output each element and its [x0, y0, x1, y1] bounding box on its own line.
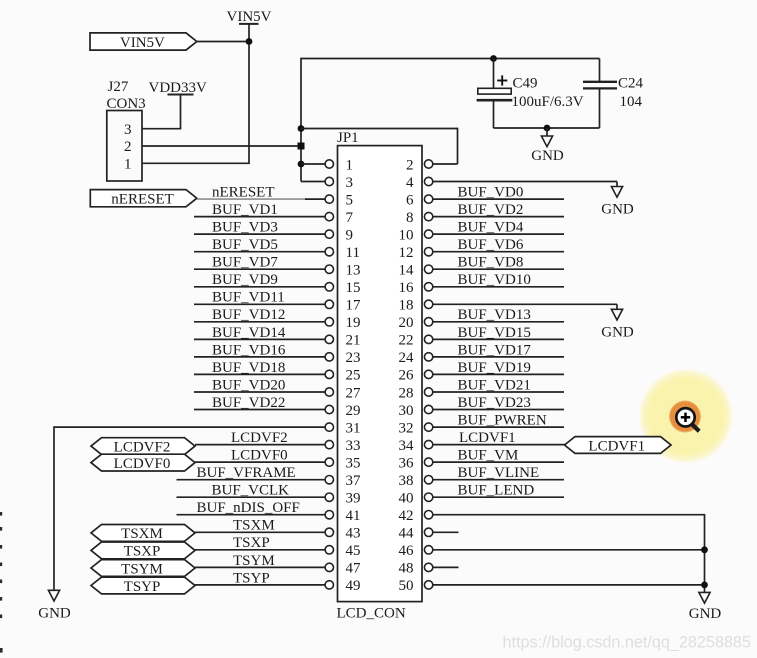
- svg-text:100uF/6.3V: 100uF/6.3V: [512, 94, 584, 110]
- svg-text:BUF_LEND: BUF_LEND: [458, 483, 535, 499]
- svg-text:9: 9: [346, 227, 354, 243]
- JP1 pin 21: [325, 333, 360, 349]
- svg-text:23: 23: [346, 350, 361, 366]
- wire nERESET to pin5: [305, 198, 325, 200]
- JP1 pin 23: [325, 350, 360, 366]
- JP1 pin 13: [325, 263, 360, 279]
- wire JP1 pin1 to bus: [301, 163, 325, 165]
- wire pin2 route horizontal: [301, 128, 458, 130]
- port flag LCDVF0: [91, 454, 195, 472]
- JP1 pin 22: [399, 333, 433, 349]
- JP1 pin 34: [399, 438, 433, 454]
- svg-text:4: 4: [406, 175, 414, 191]
- wire BUF_VD19 from pin 26: [433, 373, 564, 375]
- clipped text fragment 6: [0, 597, 2, 601]
- JP1 pin 41: [325, 508, 360, 524]
- JP1 pin 16: [399, 280, 433, 296]
- svg-text:BUF_VD18: BUF_VD18: [212, 360, 285, 376]
- wire BUF_VD13 from pin 20: [433, 321, 564, 323]
- JP1 pin 43: [325, 526, 360, 542]
- wire VIN5V vertical: [248, 24, 250, 163]
- svg-text:nERESET: nERESET: [111, 192, 174, 208]
- svg-text:LCDVF1: LCDVF1: [459, 430, 516, 446]
- svg-text:BUF_PWREN: BUF_PWREN: [458, 413, 547, 429]
- svg-text:TSYP: TSYP: [124, 579, 161, 595]
- wire pin2 route vertical: [457, 128, 459, 164]
- clipped text fragment 4: [0, 563, 2, 567]
- clipped text fragment 3: [0, 545, 2, 549]
- magnifier cursor icon: [676, 408, 699, 431]
- JP1 pin 29: [325, 403, 360, 419]
- wire J27 pin1 to VIN5V: [142, 162, 250, 164]
- ground pin4: [601, 182, 634, 218]
- JP1 pin 27: [325, 385, 361, 401]
- JP1 pin 6: [406, 192, 433, 208]
- svg-text:6: 6: [406, 192, 414, 208]
- wire BUF_VFRAME to pin 37: [177, 479, 326, 481]
- svg-text:BUF_VD5: BUF_VD5: [212, 237, 278, 253]
- svg-text:22: 22: [399, 333, 414, 349]
- wire pin50 to GND rail: [433, 584, 705, 586]
- wire TSXP to pin 45: [195, 549, 325, 551]
- JP1 pin 4: [406, 175, 433, 191]
- JP1 pin 2: [406, 157, 433, 173]
- svg-text:TSYP: TSYP: [233, 570, 270, 586]
- svg-text:50: 50: [399, 578, 414, 594]
- svg-text:LCD_CON: LCD_CON: [337, 606, 406, 622]
- svg-text:BUF_VD12: BUF_VD12: [212, 307, 285, 323]
- svg-text:BUF_VD10: BUF_VD10: [458, 272, 531, 288]
- capacitor C24: [583, 59, 617, 129]
- svg-text:5: 5: [346, 192, 354, 208]
- wire BUF_PWREN from pin 32: [433, 426, 564, 428]
- JP1 pin 40: [399, 491, 433, 507]
- svg-text:10: 10: [399, 227, 414, 243]
- JP1 pin 42: [399, 508, 433, 524]
- svg-text:18: 18: [399, 298, 414, 314]
- JP1 pin 7: [325, 210, 353, 226]
- svg-text:47: 47: [346, 561, 362, 577]
- svg-text:BUF_VLINE: BUF_VLINE: [458, 465, 540, 481]
- svg-text:BUF_VD9: BUF_VD9: [212, 272, 278, 288]
- JP1 pin 33: [325, 438, 360, 454]
- svg-text:LCDVF2: LCDVF2: [231, 430, 288, 446]
- svg-text:LCDVF0: LCDVF0: [231, 448, 288, 464]
- svg-text:8: 8: [406, 210, 414, 226]
- svg-text:17: 17: [346, 298, 362, 314]
- magnifier highlight orange ring: [669, 400, 701, 432]
- wire VDD33V stem: [180, 95, 182, 129]
- svg-text:C49: C49: [513, 76, 538, 92]
- port flag LCDVF1: [565, 437, 672, 455]
- svg-text:BUF_VM: BUF_VM: [458, 448, 519, 464]
- port flag TSXM: [91, 525, 195, 543]
- ground left: [38, 590, 71, 621]
- JP1 pin 24: [399, 350, 433, 366]
- power symbol VDD33V: [149, 80, 207, 96]
- wire nERESET gray: [197, 198, 305, 200]
- svg-text:40: 40: [399, 491, 414, 507]
- svg-text:BUF_VD22: BUF_VD22: [212, 395, 285, 411]
- svg-text:BUF_VCLK: BUF_VCLK: [212, 483, 290, 499]
- wire JP1 pin4 to GND: [433, 181, 617, 183]
- wire LCDVF2 to pin33: [195, 444, 325, 446]
- clipped text fragment 1: [0, 512, 2, 516]
- svg-text:37: 37: [346, 473, 362, 489]
- svg-text:31: 31: [346, 420, 361, 436]
- svg-text:TSYM: TSYM: [233, 553, 275, 569]
- JP1 pin 5: [325, 192, 353, 208]
- svg-text:35: 35: [346, 455, 361, 471]
- svg-text:BUF_VD19: BUF_VD19: [458, 360, 531, 376]
- JP1 pin 46: [399, 543, 433, 559]
- wire BUF_VD20 to pin 27: [194, 391, 325, 393]
- svg-text:GND: GND: [531, 148, 564, 164]
- wire bus VIN5V vertical: [300, 58, 302, 182]
- svg-text:BUF_VD2: BUF_VD2: [458, 202, 524, 218]
- JP1 pin 1: [325, 157, 353, 173]
- power flag VIN5V: [90, 33, 197, 51]
- wire right GND vertical: [704, 514, 706, 593]
- svg-text:TSYM: TSYM: [121, 561, 163, 577]
- wire BUF_VD11 to pin 17: [194, 303, 325, 305]
- wire VIN5V rail top: [301, 58, 600, 60]
- port flag TSXP: [91, 542, 195, 560]
- clipped text fragment 8: [0, 648, 3, 653]
- wire TSYP to pin 49: [195, 584, 325, 586]
- wire BUF_VCLK to pin 39: [177, 496, 326, 498]
- JP1 pin 17: [325, 298, 361, 314]
- wire BUF_VD8 from pin 14: [433, 268, 564, 270]
- svg-text:20: 20: [399, 315, 414, 331]
- power symbol VIN5V: [227, 9, 272, 25]
- connector JP1 body: [338, 146, 423, 602]
- wire BUF_VD3 to pin 9: [194, 233, 325, 235]
- svg-text:38: 38: [399, 473, 414, 489]
- svg-text:26: 26: [399, 368, 415, 384]
- wire VIN5V flag to junction: [197, 41, 249, 43]
- ground pin18: [601, 304, 634, 340]
- svg-text:12: 12: [399, 245, 414, 261]
- junction VIN5V: [246, 38, 253, 45]
- JP1 pin 20: [399, 315, 433, 331]
- wire JP1 pin2 stub: [433, 163, 458, 165]
- svg-text:BUF_VD21: BUF_VD21: [458, 377, 531, 393]
- JP1 pin 36: [399, 455, 433, 471]
- wire BUF_nDIS_OFF to pin 41: [177, 514, 326, 516]
- wire BUF_VD9 to pin 15: [194, 286, 325, 288]
- svg-text:BUF_VD15: BUF_VD15: [458, 325, 531, 341]
- svg-text:7: 7: [346, 210, 354, 226]
- svg-text:43: 43: [346, 526, 361, 542]
- svg-text:14: 14: [399, 263, 415, 279]
- wire JP1 pin18 to GND: [433, 303, 617, 305]
- svg-text:24: 24: [399, 350, 415, 366]
- junction bus JP1 pin1: [298, 161, 305, 168]
- wire pin48 stub: [433, 566, 459, 568]
- svg-text:BUF_VFRAME: BUF_VFRAME: [197, 465, 296, 481]
- svg-text:LCDVF0: LCDVF0: [114, 456, 171, 472]
- wire BUF_VD7 to pin 13: [194, 268, 325, 270]
- svg-text:BUF_VD4: BUF_VD4: [458, 220, 524, 236]
- wire BUF_VM from pin 36: [433, 461, 564, 463]
- JP1 pin 49: [325, 578, 360, 594]
- JP1 pin 47: [325, 561, 361, 577]
- wire BUF_VD10 from pin 16: [433, 286, 564, 288]
- JP1 pin 31: [325, 420, 360, 436]
- svg-text:44: 44: [399, 526, 415, 542]
- svg-text:3: 3: [124, 122, 132, 138]
- JP1 pin 11: [325, 245, 360, 261]
- svg-text:16: 16: [399, 280, 415, 296]
- svg-text:VIN5V: VIN5V: [227, 9, 272, 25]
- svg-text:BUF_VD3: BUF_VD3: [212, 220, 278, 236]
- wire LCDVF1 from pin 34: [433, 444, 566, 446]
- svg-text:28: 28: [399, 385, 414, 401]
- clipped text fragment 7: [0, 615, 2, 619]
- wire pin46 to GND rail: [433, 549, 705, 551]
- wire BUF_VD15 from pin 22: [433, 338, 564, 340]
- svg-text:C24: C24: [618, 76, 644, 92]
- svg-text:BUF_nDIS_OFF: BUF_nDIS_OFF: [197, 500, 300, 516]
- JP1 pin 38: [399, 473, 433, 489]
- svg-text:25: 25: [346, 368, 361, 384]
- wire BUF_VD1 to pin 7: [194, 216, 325, 218]
- wire BUF_VD6 from pin 12: [433, 251, 564, 253]
- svg-text:GND: GND: [689, 606, 722, 622]
- JP1 pin 26: [399, 368, 433, 384]
- svg-text:BUF_VD23: BUF_VD23: [458, 395, 531, 411]
- svg-text:2: 2: [406, 157, 414, 173]
- ground cap rail: [531, 128, 564, 164]
- svg-text:BUF_VD7: BUF_VD7: [212, 255, 278, 271]
- JP1 pin 18: [399, 298, 433, 314]
- JP1 pin 15: [325, 280, 360, 296]
- svg-text:48: 48: [399, 561, 414, 577]
- svg-text:TSXM: TSXM: [233, 518, 275, 534]
- JP1 pin 50: [399, 578, 433, 594]
- svg-text:45: 45: [346, 543, 361, 559]
- svg-text:TSXP: TSXP: [233, 535, 270, 551]
- JP1 pin 30: [399, 403, 433, 419]
- svg-text:VIN5V: VIN5V: [120, 35, 165, 51]
- junction pin46 rail: [701, 546, 708, 553]
- svg-text:BUF_VD11: BUF_VD11: [212, 290, 285, 306]
- svg-text:32: 32: [399, 420, 414, 436]
- wire pin44 stub: [433, 531, 459, 533]
- JP1 pin 25: [325, 368, 360, 384]
- svg-text:42: 42: [399, 508, 414, 524]
- clipped text fragment 2: [0, 527, 2, 531]
- JP1 pin 10: [399, 227, 433, 243]
- svg-text:BUF_VD16: BUF_VD16: [212, 342, 286, 358]
- svg-text:BUF_VD0: BUF_VD0: [458, 185, 524, 201]
- svg-text:21: 21: [346, 333, 361, 349]
- wire BUF_VD0 from pin 6: [433, 198, 564, 200]
- wire TSYM to pin 47: [195, 566, 325, 568]
- svg-text:33: 33: [346, 438, 361, 454]
- JP1 pin 9: [325, 227, 353, 243]
- svg-text:BUF_VD20: BUF_VD20: [212, 377, 285, 393]
- wire BUF_VD23 from pin 30: [433, 409, 564, 411]
- JP1 pin 19: [325, 315, 360, 331]
- junction bus J27 pin2: [298, 143, 305, 150]
- svg-text:1: 1: [124, 156, 132, 172]
- svg-text:1: 1: [346, 157, 354, 173]
- svg-text:BUF_VD14: BUF_VD14: [212, 325, 286, 341]
- svg-text:TSXP: TSXP: [124, 544, 161, 560]
- wire J27 pin2 to bus: [142, 145, 301, 147]
- JP1 pin 28: [399, 385, 433, 401]
- svg-text:nERESET: nERESET: [212, 185, 275, 201]
- wire BUF_VD2 from pin 8: [433, 216, 564, 218]
- port flag LCDVF2: [91, 438, 195, 456]
- svg-text:GND: GND: [601, 202, 634, 218]
- wire left GND vertical: [53, 426, 55, 590]
- junction bus to pin2 route: [298, 125, 305, 132]
- wire BUF_VD5 to pin 11: [194, 251, 325, 253]
- JP1 pin 35: [325, 455, 360, 471]
- svg-text:30: 30: [399, 403, 414, 419]
- JP1 pin 48: [399, 561, 433, 577]
- JP1 pin 3: [325, 175, 353, 191]
- JP1 pin 12: [399, 245, 433, 261]
- clipped text fragment 5: [0, 580, 2, 584]
- svg-text:J27: J27: [108, 79, 129, 95]
- svg-text:3: 3: [346, 175, 354, 191]
- wire pin31 to GND: [54, 426, 325, 428]
- wire BUF_VD21 from pin 28: [433, 391, 564, 393]
- svg-text:29: 29: [346, 403, 361, 419]
- svg-text:GND: GND: [601, 324, 634, 340]
- port flag nERESET: [90, 190, 197, 208]
- svg-text:GND: GND: [38, 606, 71, 622]
- svg-text:34: 34: [399, 438, 415, 454]
- port flag TSYM: [91, 560, 195, 578]
- wire LCDVF0 to pin35: [195, 461, 325, 463]
- wire JP1 pin3 to bus: [301, 181, 325, 183]
- svg-text:BUF_VD8: BUF_VD8: [458, 255, 524, 271]
- connector J27 body: [107, 111, 142, 182]
- junction C49 top: [490, 55, 497, 62]
- svg-text:39: 39: [346, 491, 361, 507]
- wire TSXM to pin 43: [195, 531, 325, 533]
- svg-text:BUF_VD1: BUF_VD1: [212, 202, 278, 218]
- svg-text:46: 46: [399, 543, 415, 559]
- wire BUF_VLINE from pin 38: [433, 479, 564, 481]
- wire BUF_VD4 from pin 10: [433, 233, 564, 235]
- svg-text:19: 19: [346, 315, 361, 331]
- svg-text:BUF_VD17: BUF_VD17: [458, 342, 532, 358]
- svg-text:41: 41: [346, 508, 361, 524]
- svg-text:13: 13: [346, 263, 361, 279]
- svg-text:CON3: CON3: [107, 96, 146, 112]
- svg-text:11: 11: [346, 245, 360, 261]
- JP1 pin 8: [406, 210, 433, 226]
- svg-text:36: 36: [399, 455, 415, 471]
- magnifier highlight glow: [639, 369, 734, 464]
- svg-text:15: 15: [346, 280, 361, 296]
- JP1 pin 39: [325, 491, 360, 507]
- svg-text:BUF_VD13: BUF_VD13: [458, 307, 531, 323]
- svg-text:https://blog.csdn.net/qq_28258: https://blog.csdn.net/qq_28258885: [503, 634, 751, 652]
- wire J27 pin3 to VDD33V: [142, 128, 181, 130]
- junction pin50 rail: [701, 582, 708, 589]
- wire BUF_VD18 to pin 25: [194, 373, 325, 375]
- wire BUF_VD17 from pin 24: [433, 356, 564, 358]
- wire cap bottom rail: [494, 127, 600, 129]
- JP1 pin 44: [399, 526, 433, 542]
- ground right: [689, 592, 722, 621]
- svg-text:LCDVF1: LCDVF1: [588, 438, 645, 454]
- JP1 pin 32: [399, 420, 433, 436]
- svg-text:LCDVF2: LCDVF2: [114, 439, 171, 455]
- svg-text:104: 104: [620, 94, 643, 110]
- svg-text:JP1: JP1: [337, 130, 359, 146]
- junction cap GND: [544, 125, 551, 132]
- JP1 pin 37: [325, 473, 361, 489]
- wire BUF_VD12 to pin 19: [194, 321, 325, 323]
- wire BUF_VD22 to pin 29: [194, 409, 325, 411]
- svg-text:27: 27: [346, 385, 362, 401]
- svg-text:BUF_VD6: BUF_VD6: [458, 237, 524, 253]
- JP1 pin 14: [399, 263, 433, 279]
- JP1 pin 45: [325, 543, 360, 559]
- svg-text:2: 2: [124, 139, 132, 155]
- capacitor C49: [477, 59, 513, 129]
- svg-text:49: 49: [346, 578, 361, 594]
- wire BUF_VD16 to pin 23: [194, 356, 325, 358]
- wire pin42 to GND rail: [433, 514, 705, 516]
- port flag TSYP: [91, 577, 195, 595]
- svg-text:TSXM: TSXM: [121, 526, 163, 542]
- wire BUF_VD14 to pin 21: [194, 338, 325, 340]
- wire BUF_LEND from pin 40: [433, 496, 564, 498]
